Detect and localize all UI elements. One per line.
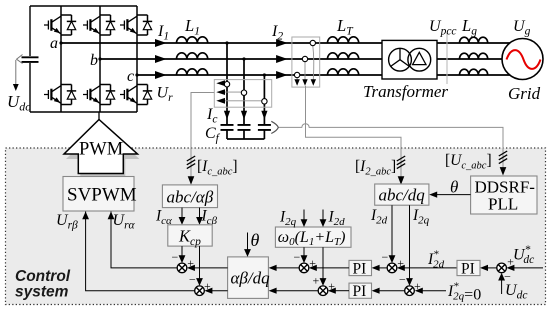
wire Ur-beta riser [86, 212, 195, 291]
filter branch drop b [243, 59, 245, 125]
capacitor Cf b [238, 125, 251, 130]
wire feedforward to J4 [322, 247, 324, 280]
sensor circle 2c [294, 72, 299, 77]
sensor circle b [241, 90, 246, 95]
svg-text:−: − [382, 250, 389, 264]
transistor upper a [44, 15, 76, 35]
block DDSRF-PLL [471, 176, 537, 214]
Ic arrows into Cf [224, 111, 230, 120]
svg-text:αβ/dq: αβ/dq [231, 269, 271, 288]
wire Uc sense [278, 124, 503, 169]
block PI d-axis [349, 260, 372, 275]
transistor upper b [83, 15, 115, 35]
svg-text:PI: PI [461, 261, 475, 278]
bridge leg a [60, 6, 62, 112]
summing node J3 [299, 263, 309, 273]
filter branch drop c [263, 75, 265, 125]
svg-text:PLL: PLL [488, 195, 518, 214]
summing node J1 [177, 263, 187, 273]
transformer wye winding [389, 48, 412, 71]
top rail [30, 5, 137, 7]
svg-text:SVPWM: SVPWM [67, 185, 137, 206]
current I1 arrows [155, 39, 167, 47]
svg-text:system: system [15, 284, 69, 301]
capacitor Cdc [22, 57, 39, 62]
summing node J6 [405, 286, 415, 296]
wire Kcp to J2 [199, 246, 201, 280]
sensor circle c [262, 99, 267, 104]
block alphabeta/dq [228, 257, 269, 299]
node c [135, 73, 138, 76]
svg-text:−: − [189, 273, 196, 287]
control system dotted border [6, 148, 546, 305]
svg-text:+: + [313, 273, 320, 287]
wire gate bus [98, 112, 100, 120]
wire feedforward to J3 [303, 247, 305, 257]
wire I2q*=0 reference [422, 290, 447, 292]
wire Ic-alpha [181, 208, 183, 219]
svg-text:abc/dq: abc/dq [379, 186, 426, 205]
phase line a [61, 42, 512, 44]
transistor upper c [120, 15, 152, 35]
block abc/dq [375, 184, 429, 205]
PWM arrow [64, 120, 138, 174]
svg-text:abc/αβ: abc/αβ [167, 188, 214, 207]
sensor circle 2b [302, 56, 307, 61]
wire Udc* reference [513, 267, 543, 269]
svg-text:−: − [172, 250, 179, 264]
block PI dc [457, 260, 480, 275]
wire Kcp to J1 [181, 246, 183, 257]
wire Udc feedback [501, 278, 503, 294]
svg-text:Transformer: Transformer [363, 82, 448, 101]
block feedforward w0(L1+LT) [275, 227, 351, 247]
bridge leg c [136, 6, 138, 112]
block Kcp [168, 225, 212, 246]
inductor Lg (3 phases) [460, 37, 488, 43]
wire J4 to alphabeta/dq [275, 290, 318, 292]
Upcc marker line [446, 33, 448, 84]
wire I2q into feedforward [303, 210, 305, 222]
DC link left rail [29, 6, 31, 112]
svg-text:Grid: Grid [508, 84, 541, 103]
wire PI-q to J4 [335, 290, 350, 292]
wire I2q down [409, 205, 411, 280]
svg-text:PI: PI [353, 283, 367, 300]
wire J5 to PI-d [378, 267, 387, 269]
current sensor box 1 (Ic) [214, 80, 271, 108]
wire PI-d to J3 [316, 267, 350, 269]
wire I2d into feedforward [322, 210, 324, 222]
svg-text:θ: θ [450, 178, 458, 197]
transistor lower a [44, 85, 76, 105]
sensor circle 2a [310, 40, 315, 45]
wire theta into alphabeta/dq [247, 233, 249, 252]
svg-text:−: − [399, 273, 406, 287]
wire dq out d to J1 [194, 267, 228, 269]
node a [59, 41, 62, 44]
node b [98, 57, 101, 60]
wire I2d down [391, 205, 393, 257]
Cf common bus [227, 138, 264, 140]
capacitor Cf c [258, 125, 271, 130]
summing node J4 [318, 286, 328, 296]
filter branch drop a [226, 43, 228, 125]
summing node J7 [497, 263, 507, 273]
wire Ur-alpha riser [111, 212, 177, 268]
capacitor Cf a [221, 125, 234, 130]
wire I2d* reference [404, 267, 458, 269]
summing node J5 [387, 263, 397, 273]
svg-text:a: a [50, 35, 58, 52]
wire Ic-beta [199, 208, 201, 219]
block abc/alphabeta [162, 185, 217, 208]
sensor circle a [224, 82, 229, 87]
wire J7 to PI dc [487, 267, 497, 269]
transistor lower b [83, 85, 115, 105]
wire J6 to PI-q [378, 290, 405, 292]
wire theta PLL to abc/dq [436, 194, 471, 196]
svg-text:b: b [90, 52, 98, 69]
PWM arrow shadow [66, 125, 140, 179]
bottom rail [30, 111, 137, 113]
transformer T1 box [382, 40, 437, 79]
wire Ic sense [191, 93, 214, 181]
svg-text:−: − [294, 250, 301, 264]
phase line c [137, 74, 512, 76]
phase line b [100, 58, 505, 60]
wire J3 to alphabeta/dq [275, 267, 299, 269]
Udc measurement marker [17, 55, 23, 64]
sensor arrows Ic [216, 80, 225, 86]
transformer delta winding [408, 48, 431, 71]
wire I2 sense [306, 86, 402, 180]
wire dq out q to J2 [211, 290, 227, 292]
summing node J2 [195, 286, 205, 296]
block PI q-axis [349, 283, 372, 298]
block SVPWM [63, 177, 134, 212]
sensor arrows I2 down [294, 79, 299, 86]
svg-text:PWM: PWM [79, 140, 123, 160]
control system background [6, 148, 546, 305]
svg-text:c: c [127, 68, 134, 85]
sensor tails Ic [222, 83, 261, 101]
svg-text:PI: PI [353, 261, 367, 278]
current I2 arrows [276, 39, 288, 47]
current sensor box 2 (I2) [292, 37, 320, 87]
bridge leg b [99, 6, 101, 112]
svg-text:Control: Control [15, 268, 71, 285]
grid source Ug [502, 39, 543, 80]
transistor lower c [120, 85, 152, 105]
sensor tails I2 [297, 46, 314, 80]
inductor LT (3 phases) [328, 37, 359, 43]
inductor L1 (3 phases) [177, 37, 208, 43]
svg-text:θ: θ [251, 230, 260, 250]
